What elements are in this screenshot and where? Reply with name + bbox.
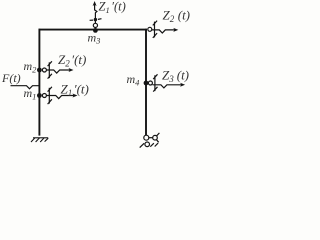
pickup Z1 (top, vertical) bbox=[90, 4, 102, 28]
svg-text:Z1′(t): Z1′(t) bbox=[99, 0, 126, 15]
svg-text:m3: m3 bbox=[88, 31, 101, 46]
svg-text:Z3(t): Z3(t) bbox=[162, 68, 189, 85]
svg-text:Z2(t): Z2(t) bbox=[163, 8, 191, 25]
svg-text:Z1′(t): Z1′(t) bbox=[61, 82, 89, 99]
pickup Z1' (at m1, horizontal) bbox=[42, 87, 74, 104]
wire top horizontal line bbox=[39, 29, 148, 31]
arrowhead Z2' right bbox=[69, 68, 74, 72]
pickup Z2 (top right, horizontal) bbox=[148, 21, 175, 38]
ground (left fixed support) bbox=[31, 138, 48, 142]
svg-text:F(t): F(t) bbox=[1, 71, 21, 85]
wire left vertical line bbox=[38, 29, 40, 136]
node m4 (right mass dot) bbox=[144, 81, 149, 86]
ground (right roller support) bbox=[140, 133, 160, 148]
svg-text:m2: m2 bbox=[24, 59, 38, 75]
force F(t) arrow bbox=[11, 86, 39, 89]
pickup Z3 (at m4, horizontal) bbox=[148, 74, 181, 91]
node m2 (left upper mass dot) bbox=[37, 68, 42, 73]
arrowhead Z2 right bbox=[173, 28, 178, 32]
node m3 (top mass dot) bbox=[93, 28, 98, 33]
svg-text:Z2′(t): Z2′(t) bbox=[58, 52, 86, 69]
node m1 (left lower mass dot) bbox=[37, 93, 42, 98]
arrowhead Z1 up bbox=[93, 1, 97, 6]
arrowhead Z1' right bbox=[73, 94, 78, 98]
wire right vertical line bbox=[145, 29, 147, 136]
svg-text:m4: m4 bbox=[127, 72, 141, 88]
pickup Z2' (at m2, horizontal) bbox=[42, 61, 70, 78]
arrowhead Z3 right bbox=[180, 83, 185, 87]
